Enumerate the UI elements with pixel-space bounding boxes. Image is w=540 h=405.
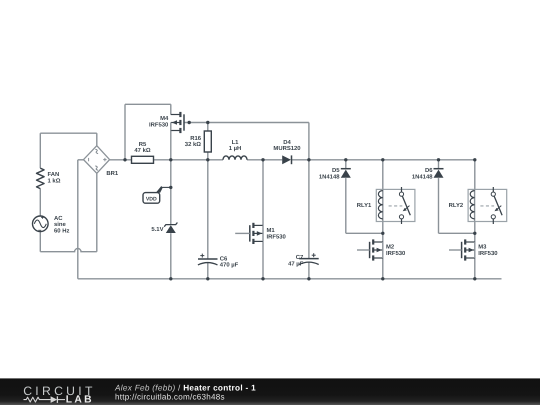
svg-text:IRF530: IRF530 xyxy=(386,250,406,257)
svg-text:5.1V: 5.1V xyxy=(151,226,163,233)
svg-text:LAB: LAB xyxy=(66,395,94,405)
svg-text:D5: D5 xyxy=(332,167,340,174)
svg-text:M1: M1 xyxy=(267,227,276,234)
svg-text:47 kΩ: 47 kΩ xyxy=(134,147,150,154)
svg-text:FAN: FAN xyxy=(48,171,60,178)
svg-text:M3: M3 xyxy=(478,244,487,251)
svg-text:RLY2: RLY2 xyxy=(449,202,464,209)
svg-text:AC: AC xyxy=(54,215,63,222)
svg-text:R16: R16 xyxy=(190,135,202,142)
svg-text:sine: sine xyxy=(54,221,67,228)
svg-text:IRF530: IRF530 xyxy=(149,121,169,128)
svg-text:C7: C7 xyxy=(296,254,304,261)
svg-text:1 µH: 1 µH xyxy=(229,145,242,152)
svg-text:IRF530: IRF530 xyxy=(267,233,287,240)
svg-text:D6: D6 xyxy=(425,167,433,174)
svg-text:1N4148: 1N4148 xyxy=(319,173,340,180)
svg-text:D4: D4 xyxy=(283,139,291,146)
svg-text:IRF530: IRF530 xyxy=(478,250,498,257)
svg-text:L1: L1 xyxy=(232,139,240,146)
svg-text:1 kΩ: 1 kΩ xyxy=(48,178,61,185)
svg-text:M2: M2 xyxy=(386,244,395,251)
svg-text:470 µF: 470 µF xyxy=(220,262,239,269)
svg-text:C6: C6 xyxy=(220,255,228,262)
svg-text:32 kΩ: 32 kΩ xyxy=(185,141,201,148)
svg-text:47 µF: 47 µF xyxy=(288,260,304,267)
svg-text:60 Hz: 60 Hz xyxy=(54,228,69,235)
svg-text:MURS120: MURS120 xyxy=(273,145,301,152)
svg-text:VDD: VDD xyxy=(146,196,157,202)
svg-text:Alex Feb (febb) / Heater contr: Alex Feb (febb) / Heater control - 1 xyxy=(114,383,256,392)
svg-text:M4: M4 xyxy=(160,115,169,122)
svg-text:R5: R5 xyxy=(139,141,147,148)
svg-text:http://circuitlab.com/c63h48s: http://circuitlab.com/c63h48s xyxy=(115,393,225,402)
svg-text:BR1: BR1 xyxy=(106,170,119,177)
svg-text:1N4148: 1N4148 xyxy=(412,173,433,180)
svg-text:RLY1: RLY1 xyxy=(357,202,372,209)
